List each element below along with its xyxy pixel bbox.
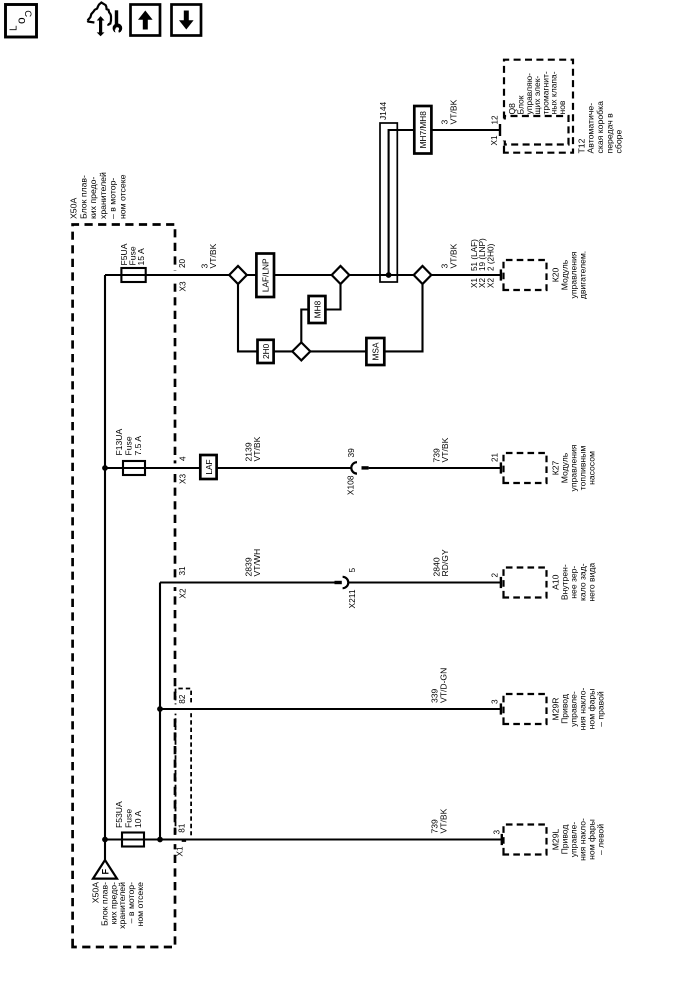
- K20 pin numbers 51/19/2: [470, 238, 495, 271]
- svg-text:MH7/MH8: MH7/MH8: [418, 111, 428, 149]
- icon adjust (hand with double arrow and wrench): [88, 3, 123, 37]
- svg-text:Блок плав-: Блок плав-: [78, 175, 88, 219]
- wire: bus tap down through fuse F53UA to M29L: [105, 838, 501, 840]
- label X50A fuse block (top right): [69, 172, 128, 219]
- splice diamond S4 on 2H0/MSA branch: [292, 342, 310, 360]
- svg-text:F: F: [100, 869, 110, 875]
- label K20 engine control module: [550, 251, 587, 299]
- svg-text:3: 3: [490, 699, 499, 704]
- fuse F13UA 7.5 A: [123, 461, 145, 475]
- svg-text:X1: X1: [176, 846, 185, 856]
- wire label 739 VT/BK (to K27): [431, 437, 450, 462]
- M29L pin 3: [492, 830, 501, 835]
- label fuse F5UA: [119, 243, 146, 265]
- left headlamp leveling actuator M29L box (dashed component box): [504, 825, 547, 855]
- svg-text:него вида: него вида: [586, 563, 596, 602]
- fuse F53UA 10 A: [122, 833, 144, 847]
- svg-text:сборе: сборе: [614, 130, 624, 154]
- terminal bar at Q8 connector X1: [499, 124, 501, 136]
- junction rail at M29L wire: [157, 837, 163, 843]
- engine control module K20 box (dashed component box): [504, 260, 547, 290]
- terminal bar at K20 connector: [500, 269, 502, 280]
- svg-text:VT/WH: VT/WH: [252, 549, 262, 577]
- svg-text:3: 3: [492, 830, 501, 835]
- icon down-arrow button: [172, 5, 202, 36]
- wire: feed bus inside X50A from triangle F to fuse F5UA: [104, 275, 106, 860]
- wire label 3 VT/BK (Q8 branch): [440, 99, 459, 124]
- pin 82 (connector X1): [178, 694, 187, 704]
- svg-text:VT/BK: VT/BK: [440, 437, 450, 462]
- svg-text:2: 2: [490, 573, 499, 578]
- pin 81 (connector X1): [177, 823, 186, 833]
- wire: circuit 2840 RD/GY from X211 to A10: [349, 581, 500, 583]
- option code box MH7/MH8: [414, 106, 431, 154]
- svg-text:4: 4: [178, 456, 187, 461]
- inside rearview mirror A10 box (dashed component box): [504, 568, 547, 598]
- wire: splice branch through MSA from diamond 4 to diamond 3: [310, 284, 422, 352]
- svg-text:2H0: 2H0: [261, 343, 271, 359]
- svg-text:10 A: 10 A: [133, 811, 143, 828]
- junction bus to F53UA: [102, 837, 108, 843]
- terminal bar at K27 connector: [500, 462, 502, 473]
- svg-text:12: 12: [491, 115, 500, 125]
- fuel pump control module K27 box (dashed component box): [504, 453, 547, 483]
- connector X2 at pin 31: [178, 588, 187, 598]
- svg-text:хранителей: хранителей: [98, 172, 108, 219]
- svg-text:VT/D-GN: VT/D-GN: [438, 668, 448, 703]
- svg-text:двигателем.: двигателем.: [577, 251, 587, 299]
- svg-text:7.5 A: 7.5 A: [133, 436, 143, 456]
- svg-text:X2: X2: [486, 278, 495, 288]
- label fuse F13UA: [114, 428, 143, 455]
- wire: circuit 2839 VT/WH pin 31 to X211: [160, 581, 335, 583]
- icon LOC button: [6, 5, 37, 38]
- pin 4 (fuse box X3): [178, 456, 187, 461]
- pin 39 at X108: [346, 448, 356, 458]
- wire gap patches on dashed edges: [171, 120, 509, 845]
- svg-text:VT/BK: VT/BK: [252, 436, 262, 461]
- svg-text:39: 39: [346, 448, 356, 458]
- option code box LAF/LNP: [256, 254, 274, 298]
- svg-text:81: 81: [177, 823, 186, 833]
- label A10 inside rearview mirror: [550, 563, 596, 602]
- solenoid valve block Q8 (dashed outline inside T12): [505, 116, 569, 145]
- svg-text:LAF: LAF: [204, 459, 214, 474]
- svg-text:ном отсеке: ном отсеке: [118, 174, 128, 219]
- connector X108 label: [346, 475, 356, 495]
- junction bus to F13UA: [102, 465, 108, 471]
- fuse F5UA 15 A: [121, 268, 145, 282]
- power feed triangle F (X50A feed): [93, 860, 117, 879]
- label M29R right headlamp leveling actuator: [550, 688, 605, 731]
- terminal bar at A10 connector: [500, 577, 502, 588]
- svg-text:X3: X3: [178, 474, 187, 484]
- svg-text:Fuse: Fuse: [124, 436, 134, 455]
- option code box MSA: [366, 338, 384, 365]
- right headlamp leveling actuator M29R box (dashed component box): [504, 694, 547, 724]
- connector X1 label: [176, 846, 185, 856]
- svg-text:X1: X1: [490, 135, 499, 145]
- svg-text:X50A: X50A: [69, 198, 79, 219]
- terminal bar at M29L connector: [501, 834, 503, 845]
- svg-text:Fuse: Fuse: [124, 809, 134, 828]
- jumper harness J144 (outline): [380, 123, 397, 282]
- svg-text:MSA: MSA: [371, 342, 381, 360]
- wire label 3 VT/BK (trunk upper): [199, 243, 218, 268]
- svg-text:2 (2H0): 2 (2H0): [486, 243, 495, 271]
- splice diamond S2 on trunk: [332, 266, 350, 284]
- fuse block X50A (dashed outline, underhood fuse box): [73, 225, 175, 948]
- A10 pin 2: [490, 573, 499, 578]
- wire: rail from F53UA output feeding pins 82 and 31: [159, 583, 161, 840]
- svg-text:L: L: [8, 25, 19, 31]
- splice diamond S3 on trunk: [414, 266, 432, 284]
- connector X3 at pin 4: [178, 474, 187, 484]
- pin 5 at X211: [347, 568, 357, 573]
- option code box 2H0: [258, 340, 274, 363]
- K20 connectors X1/X2/X2: [470, 278, 495, 288]
- svg-text:– правой: – правой: [595, 691, 605, 727]
- svg-text:нов: нов: [557, 100, 567, 114]
- label X50A fuse block (left, inside box): [91, 882, 146, 929]
- svg-text:X211: X211: [347, 589, 357, 608]
- wire label 2839 VT/WH: [243, 549, 262, 577]
- label J144: [378, 101, 388, 120]
- svg-text:X3: X3: [178, 281, 187, 291]
- svg-text:– левой: – левой: [595, 824, 605, 855]
- svg-text:21: 21: [491, 452, 500, 462]
- inline connector X108 (female cup and male terminal): [351, 462, 368, 473]
- svg-text:– в мотор-: – в мотор-: [108, 178, 118, 219]
- svg-text:F53UA: F53UA: [114, 801, 124, 828]
- wire label 2139 VT/BK: [243, 436, 262, 461]
- svg-text:15 A: 15 A: [136, 248, 146, 265]
- pin 31 (fuse box X2): [178, 566, 187, 576]
- svg-text:VT/BK: VT/BK: [208, 243, 218, 268]
- wire label 2840 RD/GY: [431, 549, 450, 576]
- svg-text:LAF/LNP: LAF/LNP: [261, 258, 271, 292]
- wire: bus tap down through fuse F13UA: [105, 467, 351, 469]
- svg-text:насосом: насосом: [586, 451, 596, 485]
- svg-text:C: C: [22, 10, 33, 17]
- option code box LAF: [200, 455, 216, 479]
- schematic group rotated 90deg CCW: [69, 60, 624, 947]
- junction rail to M29R wire: [157, 706, 163, 712]
- svg-text:F13UA: F13UA: [114, 428, 124, 455]
- label Q8 solenoid valve block: [507, 71, 567, 114]
- label T12 automatic transmission assembly: [576, 101, 623, 154]
- icon up-arrow button: [131, 5, 161, 36]
- svg-text:J144: J144: [378, 101, 388, 120]
- wire label 339 VT/D-GN: [430, 668, 449, 703]
- svg-text:82: 82: [178, 694, 187, 704]
- junction trunk to J144 conductor: [386, 272, 392, 278]
- svg-text:o: o: [14, 17, 28, 24]
- label K27 fuel pump control module: [550, 444, 596, 491]
- wire: circuit 339 VT/D-GN to M29R: [160, 708, 501, 710]
- label M29L left headlamp leveling actuator: [550, 818, 605, 861]
- option code box MH8: [309, 296, 326, 323]
- svg-text:RD/GY: RD/GY: [440, 549, 450, 576]
- Q8 pin 12: [491, 115, 500, 125]
- svg-text:X2: X2: [178, 588, 187, 598]
- wire: jumper J144 conductor circuit 3 VT/BK to MH7/MH8 and Q8: [389, 130, 500, 275]
- wire: splice branch from diamond 1 through 2H0 to diamond 4: [238, 284, 293, 352]
- K27 pin 21: [491, 452, 500, 462]
- wire: trunk circuit 3 VT/BK from fuse F5UA to K20: [105, 274, 500, 276]
- svg-text:5: 5: [347, 568, 357, 573]
- svg-text:X108: X108: [346, 475, 356, 495]
- svg-text:MH8: MH8: [312, 300, 322, 318]
- wire: branch from diamond 4 through MH8 to diamond 2: [301, 284, 340, 343]
- svg-text:VT/BK: VT/BK: [438, 808, 448, 833]
- M29R pin 3: [490, 699, 499, 704]
- wire label 3 VT/BK (trunk at K20): [440, 243, 459, 268]
- Q8 connector X1: [490, 135, 499, 145]
- svg-text:20: 20: [178, 258, 187, 268]
- transmission assembly T12 (dashed outline): [504, 60, 573, 153]
- svg-text:VT/BK: VT/BK: [448, 99, 458, 124]
- connector X211 label: [347, 589, 357, 608]
- wire: circuit 739 VT/BK from X108 to K27: [369, 467, 500, 469]
- svg-text:ном отсеке: ном отсеке: [135, 882, 145, 927]
- pin 20 (fuse box X3): [178, 258, 187, 268]
- splice diamond S1 on trunk: [229, 266, 247, 284]
- connector X1 of fuse block (dotted outline around pins 81/82): [176, 689, 192, 842]
- svg-text:31: 31: [178, 566, 187, 576]
- label fuse F53UA: [114, 801, 143, 828]
- svg-text:ких предо-: ких предо-: [88, 177, 98, 219]
- svg-text:VT/BK: VT/BK: [448, 243, 458, 268]
- inline connector X211 (male terminal and female cup): [335, 577, 349, 588]
- terminal bar at M29R connector: [500, 703, 502, 714]
- wire label 739 VT/BK (to M29L): [430, 808, 449, 833]
- connector X3 at pin 20: [178, 281, 187, 291]
